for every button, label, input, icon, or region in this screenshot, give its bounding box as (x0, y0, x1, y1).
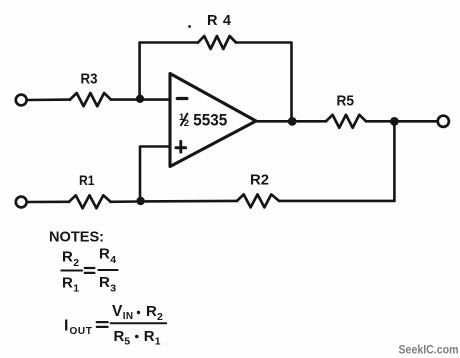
wire: right riser to output node (393, 121, 396, 200)
svg-text:4: 4 (110, 254, 116, 266)
svg-text:2: 2 (157, 311, 163, 323)
label: SeekIC.com watermark (399, 343, 459, 357)
pin: inverting input (-) (177, 97, 187, 100)
wire: top horizontal to R4 (140, 41, 198, 44)
svg-text:R5: R5 (337, 94, 355, 110)
resistor R1 (69, 195, 111, 208)
resistor R5 (326, 115, 366, 128)
svg-text:R: R (62, 275, 73, 292)
wire: node A riser to non-inverting input (140, 147, 170, 202)
svg-text:I: I (64, 318, 68, 335)
op-amp U1 (1/2 5535) (170, 74, 256, 167)
label: R5 (337, 94, 355, 110)
wire: feedback riser (left vertical) (138, 43, 141, 100)
label: R3 (81, 72, 98, 88)
svg-text:1: 1 (73, 283, 79, 295)
label: formula IOUT = VIN*R2 / R5*R1 (64, 303, 166, 348)
svg-text:OUT: OUT (70, 326, 93, 337)
label: NOTES heading (49, 229, 104, 246)
wire: R3 to op-amp inverting input (111, 98, 170, 101)
junction: inverting input node (136, 95, 144, 103)
svg-text:5535: 5535 (193, 112, 227, 130)
pin: non-inverting input (+) (176, 141, 186, 152)
wire: op-amp output to R5 (256, 120, 326, 123)
label: R2 (250, 173, 269, 189)
junction: output node after R5 (390, 117, 399, 126)
svg-text:R3: R3 (81, 72, 98, 88)
wire: top input terminal to R3 (28, 98, 70, 101)
svg-text:2: 2 (73, 257, 79, 269)
wire: R1 to node A (111, 200, 141, 203)
svg-text:2: 2 (184, 118, 189, 129)
label: R1 (79, 172, 95, 188)
node: bottom input terminal (16, 197, 27, 208)
junction: feedback/output node (288, 117, 297, 126)
resistor R3 (70, 93, 111, 106)
svg-text:R: R (99, 246, 110, 263)
svg-text:R4: R4 (207, 13, 231, 29)
svg-text:R: R (62, 249, 73, 266)
svg-text:V: V (112, 303, 123, 320)
label: formula R2/R1 = R4/R3 (61, 246, 117, 295)
node: top input terminal (16, 95, 27, 106)
resistor R2 (237, 194, 279, 207)
wire: R2 to right riser (279, 200, 394, 203)
wire: bottom input terminal to R1 (28, 201, 69, 204)
svg-text:1: 1 (155, 336, 161, 348)
svg-text:R: R (99, 274, 110, 291)
svg-text:NOTES:: NOTES: (49, 229, 104, 246)
wire: node A to R2 (140, 200, 237, 203)
svg-text:SeekIC.com: SeekIC.com (399, 343, 459, 357)
svg-text:R: R (146, 303, 157, 320)
svg-text:3: 3 (110, 283, 116, 295)
wire: R4 to output node (top right corner) (236, 43, 292, 122)
svg-text:R1: R1 (79, 172, 95, 188)
svg-text:R2: R2 (250, 173, 269, 189)
node: output terminal (438, 116, 449, 127)
label: R4 (207, 13, 231, 29)
svg-text:R: R (114, 328, 125, 345)
svg-text:IN: IN (123, 311, 134, 322)
svg-text:5: 5 (124, 336, 130, 348)
resistor R4 (198, 36, 236, 49)
wire: R5 to output terminal (366, 120, 437, 123)
junction: node A (136, 197, 144, 205)
svg-text:R: R (144, 328, 155, 345)
label: 1/2 5535 device value (179, 112, 227, 130)
